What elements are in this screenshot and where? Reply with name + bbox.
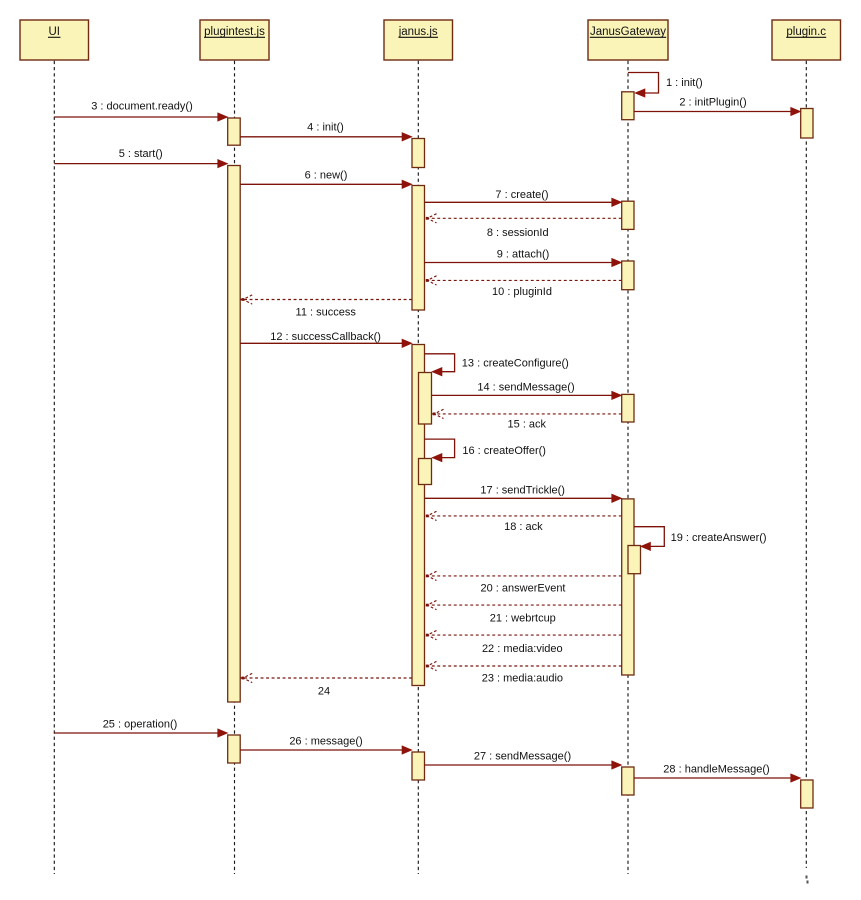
- svg-text:1 : init(): 1 : init(): [666, 77, 703, 89]
- svg-text:17 : sendTrickle(): 17 : sendTrickle(): [480, 485, 565, 497]
- message 24: [240, 673, 412, 697]
- svg-text:14 : sendMessage(): 14 : sendMessage(): [477, 381, 574, 393]
- message 18 : ack: [425, 511, 622, 533]
- participant UI: [20, 20, 89, 60]
- message 22 : media:video: [425, 631, 622, 656]
- svg-text:JanusGateway: JanusGateway: [590, 26, 666, 38]
- svg-text:23 : media:audio: 23 : media:audio: [482, 673, 563, 685]
- svg-text:19 : createAnswer(): 19 : createAnswer(): [671, 532, 767, 544]
- activation JanusGateway #4: [622, 394, 634, 422]
- participant plugin.c: [772, 20, 841, 60]
- message 21 : webrtcup: [425, 601, 622, 625]
- activation janus.js nested #1: [419, 373, 432, 425]
- message 16 : createOffer(): [425, 439, 546, 462]
- svg-text:12 : successCallback(): 12 : successCallback(): [270, 331, 381, 343]
- svg-text:2 : initPlugin(): 2 : initPlugin(): [679, 96, 746, 108]
- activation JanusGateway #5 long: [622, 499, 634, 675]
- svg-text:11 : success: 11 : success: [296, 306, 357, 318]
- message 19 : createAnswer(): [634, 527, 767, 551]
- message 6 : new(): [240, 169, 412, 188]
- svg-text:22 : media:video: 22 : media:video: [482, 643, 563, 655]
- lifeline plugin.c: [805, 61, 807, 868]
- message 25 : operation(): [54, 719, 227, 738]
- svg-text:8 : sessionId: 8 : sessionId: [487, 227, 549, 239]
- svg-text:plugin.c: plugin.c: [786, 26, 826, 38]
- message 7 : create(): [425, 189, 622, 207]
- lifeline plugintest.js: [234, 61, 236, 874]
- activation JanusGateway #3: [622, 261, 634, 290]
- message 20 : answerEvent: [425, 571, 622, 594]
- activation janus.js #1: [412, 139, 425, 168]
- message 8 : sessionId: [425, 214, 622, 239]
- activation janus.js #4: [412, 752, 425, 780]
- participant JanusGateway: [588, 20, 668, 60]
- svg-text:20 : answerEvent: 20 : answerEvent: [481, 583, 566, 595]
- message 2 : initPlugin(): [634, 96, 801, 115]
- svg-text:28 : handleMessage(): 28 : handleMessage(): [663, 764, 769, 776]
- message 1 : init(): [628, 73, 703, 98]
- message 5 : start(): [54, 148, 227, 168]
- svg-text:janus.js: janus.js: [398, 26, 438, 38]
- svg-text:16 : createOffer(): 16 : createOffer(): [462, 445, 546, 457]
- svg-text:26 : message(): 26 : message(): [289, 736, 362, 748]
- activation janus.js nested #2: [419, 459, 432, 485]
- activation JanusGateway #2: [622, 201, 634, 229]
- message 23 : media:audio: [425, 661, 622, 684]
- participant plugintest.js: [200, 20, 269, 60]
- message 28 : handleMessage(): [634, 764, 801, 783]
- activation plugintest.js #1: [228, 118, 241, 145]
- message 3 : document.ready(): [54, 101, 227, 122]
- lifeline UI: [53, 61, 55, 874]
- message 26 : message(): [240, 736, 412, 755]
- svg-text:25 : operation(): 25 : operation(): [103, 719, 178, 731]
- svg-text:6 : new(): 6 : new(): [305, 169, 348, 181]
- svg-text:7 : create(): 7 : create(): [495, 189, 548, 201]
- activation JanusGateway #1: [622, 92, 634, 120]
- svg-text:3 : document.ready(): 3 : document.ready(): [91, 101, 193, 113]
- message 14 : sendMessage(): [432, 381, 622, 399]
- lifeline JanusGateway: [627, 61, 629, 874]
- svg-text:plugintest.js: plugintest.js: [204, 26, 265, 38]
- activation plugin.c #2: [801, 780, 813, 808]
- message 12 : successCallback(): [240, 331, 412, 348]
- message 13 : createConfigure(): [425, 354, 569, 376]
- activation plugintest.js #3: [228, 735, 241, 763]
- message 4 : init(): [240, 122, 412, 142]
- svg-text:18 : ack: 18 : ack: [504, 521, 543, 533]
- activation plugintest.js #2 long: [228, 166, 241, 703]
- svg-text:4 : init(): 4 : init(): [307, 122, 344, 134]
- message 9 : attach(): [425, 248, 622, 266]
- svg-text:21 : webrtcup: 21 : webrtcup: [490, 613, 556, 625]
- activation JanusGateway #6: [622, 767, 634, 795]
- message 27 : sendMessage(): [425, 751, 622, 770]
- svg-text:UI: UI: [48, 26, 60, 38]
- svg-text:27 : sendMessage(): 27 : sendMessage(): [474, 751, 571, 763]
- artifact mark: [806, 876, 808, 879]
- svg-text:5 : start(): 5 : start(): [119, 148, 163, 160]
- lifeline janus.js: [417, 61, 419, 874]
- message 11 : success: [240, 295, 412, 318]
- participant janus.js: [384, 20, 453, 60]
- message 10 : pluginId: [425, 276, 622, 298]
- svg-text:24: 24: [318, 685, 330, 697]
- svg-text:13 : createConfigure(): 13 : createConfigure(): [462, 358, 569, 370]
- activation janus.js #3 long: [412, 345, 425, 686]
- message 17 : sendTrickle(): [425, 485, 622, 503]
- svg-text:9 : attach(): 9 : attach(): [497, 248, 550, 260]
- activation plugin.c #1: [801, 109, 813, 139]
- message 15 : ack: [432, 409, 622, 430]
- svg-text:10 : pluginId: 10 : pluginId: [492, 286, 552, 298]
- activation JanusGateway nested: [628, 546, 641, 574]
- activation janus.js #2: [412, 186, 425, 311]
- svg-text:15 : ack: 15 : ack: [508, 419, 547, 431]
